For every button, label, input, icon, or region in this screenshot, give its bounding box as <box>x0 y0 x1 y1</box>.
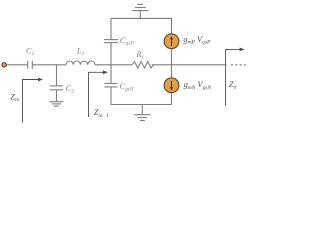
wire terminal to C1 <box>7 64 28 66</box>
wire top source to output wire <box>171 49 173 65</box>
ground (C2) <box>49 102 63 106</box>
svg-text:CgsP: CgsP <box>120 36 134 47</box>
wire output wire to bottom current source <box>171 65 173 78</box>
ground (top, AC ground up) <box>132 4 149 10</box>
dashed continuation wire <box>231 64 247 66</box>
wire CgsP to input node <box>110 43 112 65</box>
bottom bus wire <box>111 104 173 106</box>
arrow inside top source (up) <box>170 36 173 46</box>
svg-text:gmP VgsP: gmP VgsP <box>183 35 211 46</box>
shunt branch stem to C2 <box>56 65 58 86</box>
svg-text:C1: C1 <box>26 46 35 57</box>
wire top bus to top current source <box>171 18 173 33</box>
svg-text:CgsN: CgsN <box>119 82 133 93</box>
top bus wire <box>111 17 173 19</box>
Zin1 measurement arrow <box>89 70 108 117</box>
wire C1 to L1 <box>33 64 66 66</box>
ground (bottom) <box>134 115 150 121</box>
input terminal <box>2 63 6 67</box>
current source gmP VgsP <box>164 34 179 49</box>
svg-text:C2: C2 <box>66 84 75 95</box>
wire L1 to Rf (through input node) <box>95 64 132 66</box>
resistor Rf <box>132 62 154 68</box>
inductor L1 <box>66 61 95 65</box>
current source gmN VgsN <box>164 78 179 93</box>
arrow inside bottom source (down) <box>170 81 173 91</box>
capacitor C1 <box>28 61 33 69</box>
Zin measurement arrow <box>23 78 44 123</box>
capacitor CgsN <box>104 84 117 87</box>
wire C2 to ground <box>56 90 58 102</box>
svg-text:gmN VgsN: gmN VgsN <box>184 80 212 91</box>
Zd measurement arrow <box>226 48 245 107</box>
node vertical: top wire down to CgsP <box>110 18 112 39</box>
wire Rf to output node and right <box>152 64 227 66</box>
wire input node down to CgsN <box>110 65 112 84</box>
svg-text:L1: L1 <box>76 46 85 57</box>
capacitor CgsP <box>104 40 118 43</box>
wire CgsN to bottom bus <box>110 87 112 105</box>
svg-text:Zin: Zin <box>10 93 19 104</box>
bottom ground stem <box>141 105 143 115</box>
svg-text:Rf: Rf <box>135 50 144 61</box>
top ground stem <box>139 11 141 19</box>
svg-text:Zd: Zd <box>229 80 237 91</box>
wire bottom source to bottom bus <box>171 93 173 105</box>
svg-text:Zin1: Zin1 <box>94 108 109 119</box>
capacitor C2 <box>50 86 63 90</box>
